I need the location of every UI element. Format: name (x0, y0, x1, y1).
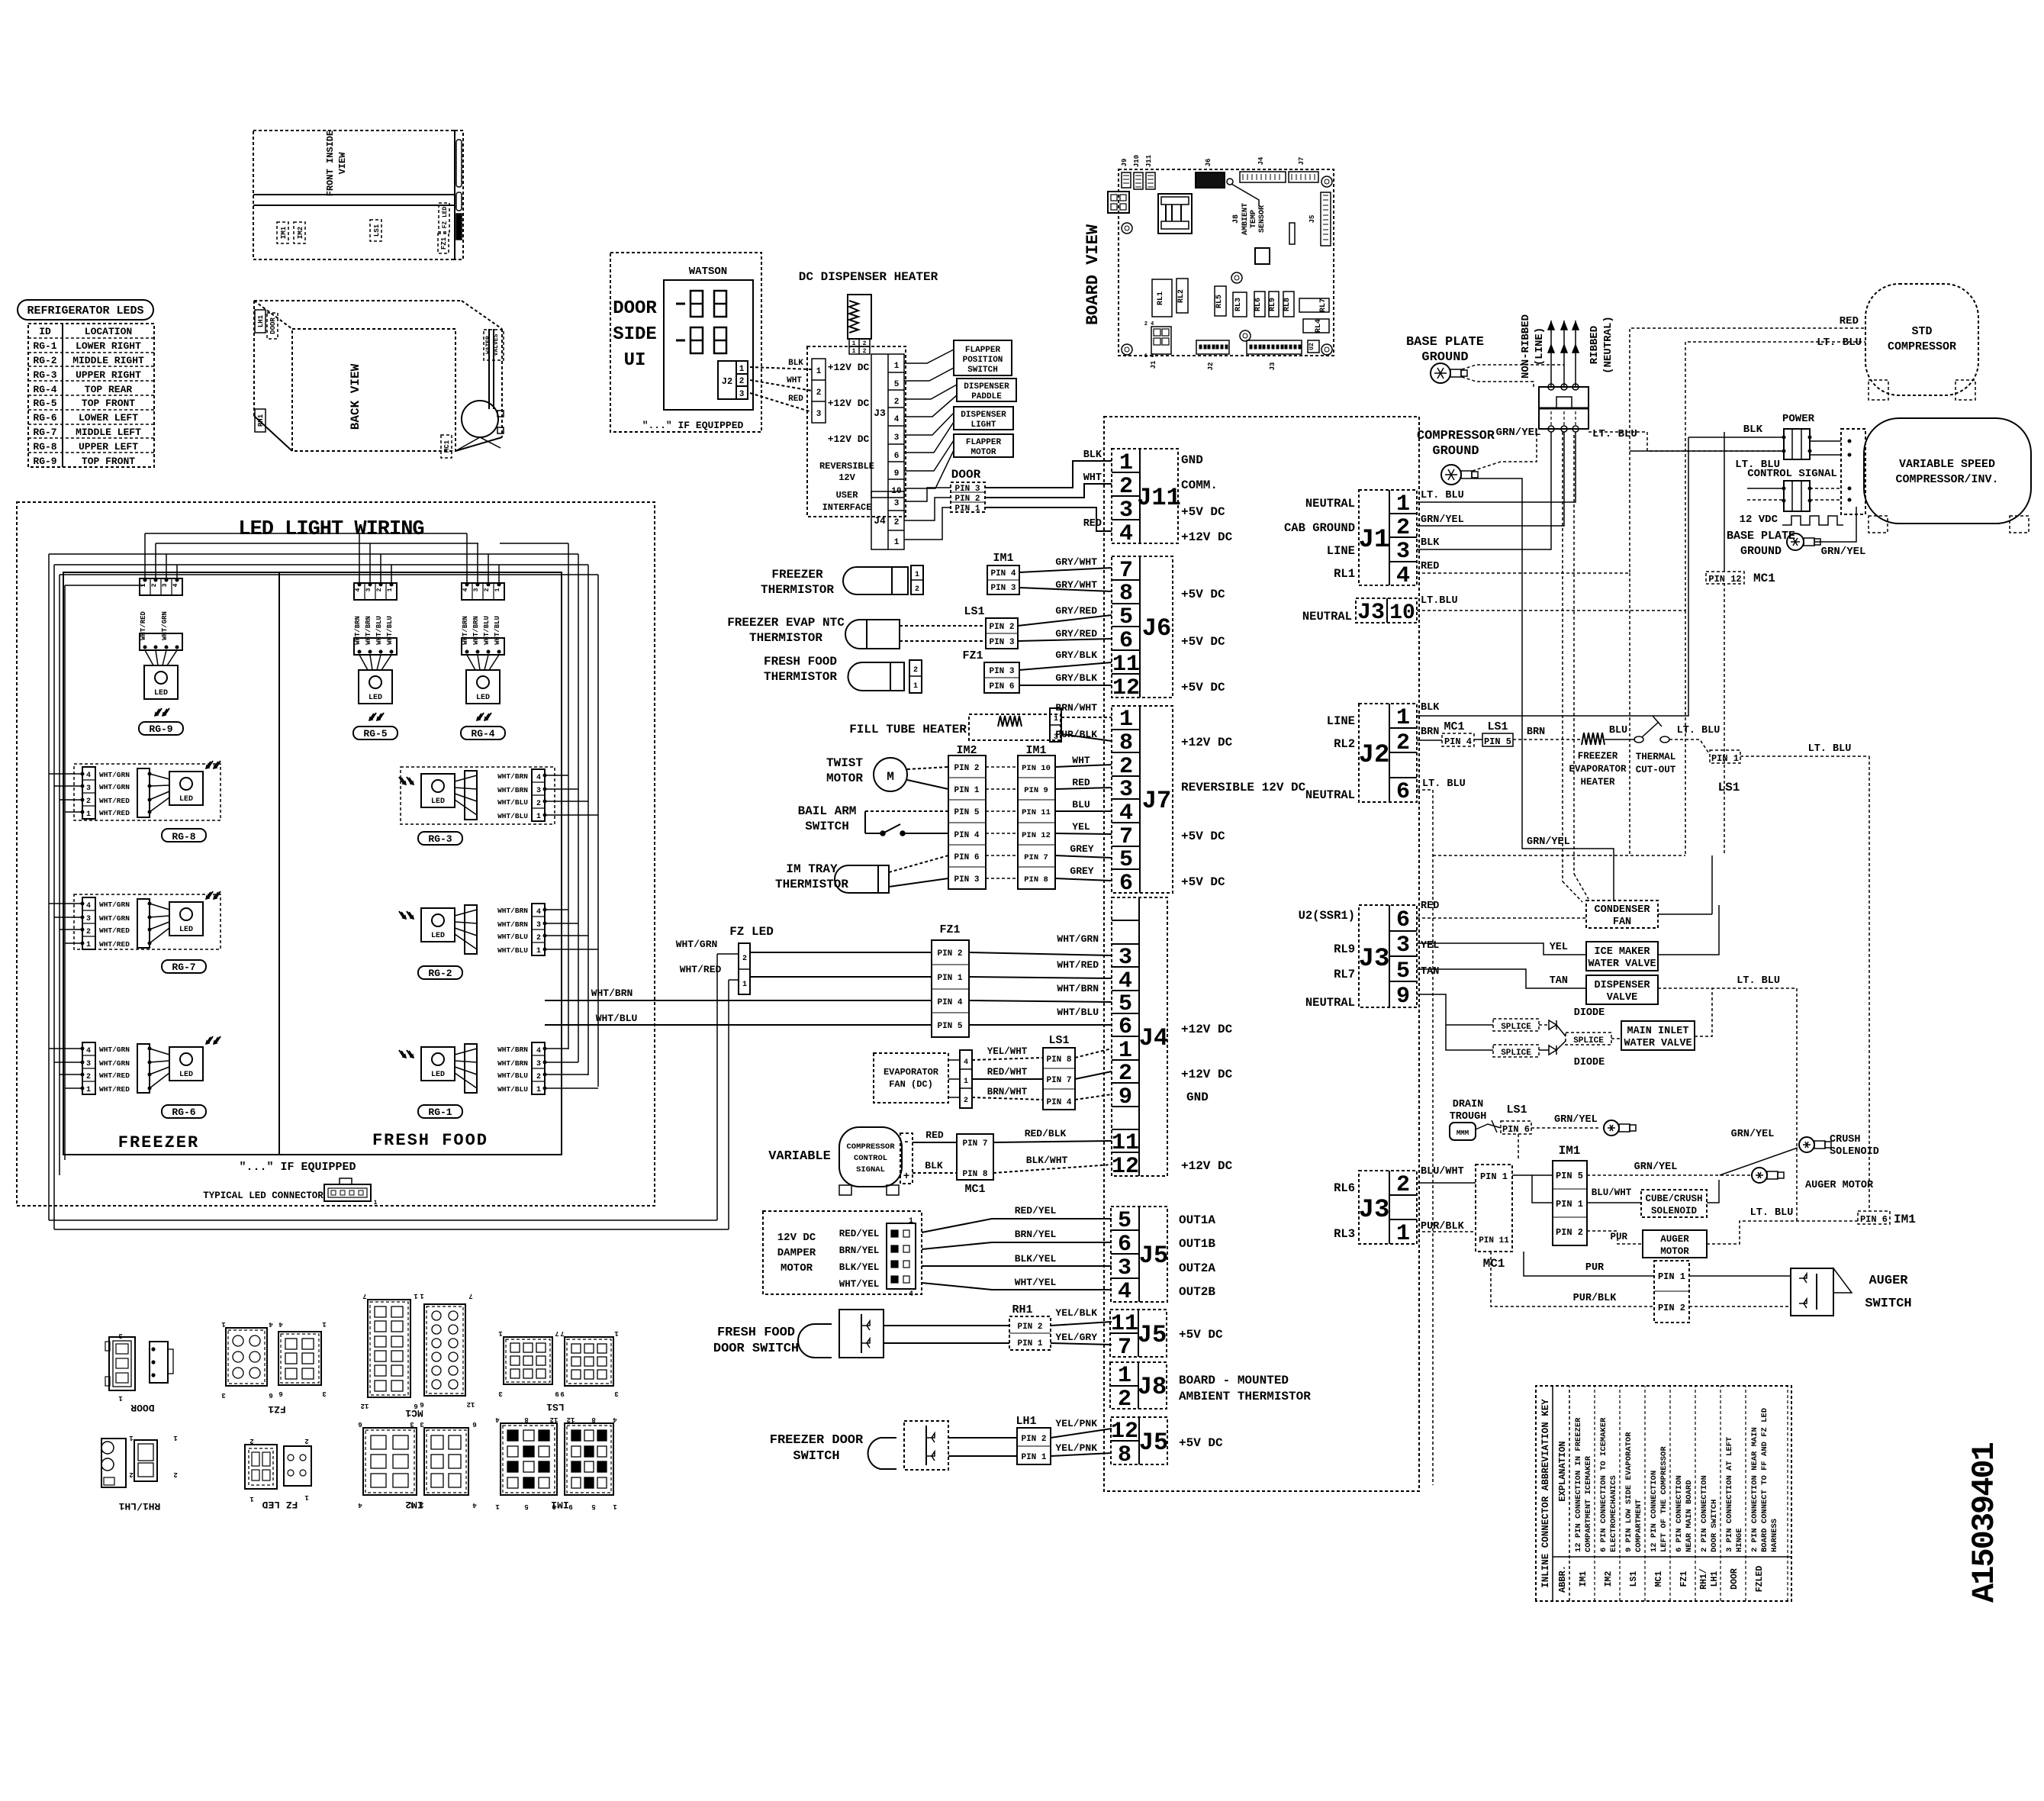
back view (refrigerator rear 3D drawing) (254, 300, 462, 301)
relay RL8 (1283, 292, 1294, 317)
svg-text:LT. BLU: LT. BLU (1737, 975, 1780, 987)
svg-text:LED: LED (431, 1071, 445, 1079)
svg-text:"..." IF EQUIPPED: "..." IF EQUIPPED (642, 420, 744, 431)
svg-text:NEUTRAL: NEUTRAL (1302, 610, 1352, 623)
relay RL3 (1233, 292, 1247, 317)
wire GREY to J7 pin5 (1055, 855, 1112, 858)
svg-text:1: 1 (742, 981, 747, 989)
fill tube heater connector 1-3 (1050, 708, 1061, 742)
svg-text:LINE: LINE (1327, 544, 1355, 558)
svg-text:RG-2: RG-2 (33, 355, 56, 366)
wire BLU/WHT IM1 pin1 to cube/crush solenoid (1587, 1202, 1641, 1203)
LED module RG-5 (354, 583, 397, 600)
svg-text:BLK: BLK (1421, 537, 1440, 549)
svg-text:GRY/WHT: GRY/WHT (1055, 579, 1097, 591)
stubs to RG-2 pins (545, 909, 568, 910)
svg-text:RED: RED (1072, 777, 1090, 788)
svg-text:WHT/BRN: WHT/BRN (497, 920, 528, 929)
svg-text:LED: LED (179, 1071, 193, 1079)
svg-text:BAIL ARM: BAIL ARM (798, 804, 857, 818)
svg-text:7: 7 (468, 1292, 472, 1300)
svg-text:FREEZER DOOR: FREEZER DOOR (770, 1433, 864, 1448)
std compressor (1865, 284, 1978, 395)
svg-text:CONDENSER: CONDENSER (1595, 904, 1651, 916)
svg-text:PIN 5: PIN 5 (954, 808, 979, 817)
svg-text:6: 6 (1119, 871, 1133, 897)
svg-text:DOOR SWITCH: DOOR SWITCH (1710, 1500, 1719, 1552)
svg-text:PIN 1: PIN 1 (1480, 1171, 1508, 1182)
svg-text:BLU: BLU (1609, 725, 1627, 736)
svg-text:IM2: IM2 (1604, 1571, 1614, 1587)
svg-text:2: 2 (739, 377, 745, 386)
svg-text:REVERSIBLE: REVERSIBLE (819, 461, 874, 472)
svg-text:PIN 9: PIN 9 (1024, 786, 1048, 795)
wire GRY/RED to J6 pin5 (1018, 615, 1112, 626)
connector J2 line out (1359, 704, 1417, 802)
evaporator fan DC (874, 1053, 948, 1103)
svg-text:3: 3 (86, 1060, 91, 1068)
svg-text:VALVES: VALVES (493, 333, 500, 356)
dispenser valve (1586, 975, 1658, 1004)
svg-text:J3: J3 (1359, 1196, 1390, 1225)
relay RL6 (1254, 292, 1265, 317)
svg-text:RG-4: RG-4 (471, 728, 494, 739)
svg-text:DOOR: DOOR (269, 317, 277, 334)
svg-text:HARNESS: HARNESS (1770, 1519, 1779, 1552)
svg-text:PIN 8: PIN 8 (1046, 1055, 1071, 1065)
relay RL9 (1269, 292, 1279, 317)
svg-text:RL7: RL7 (1319, 298, 1328, 312)
svg-text:LOWER RIGHT: LOWER RIGHT (76, 340, 141, 352)
svg-text:3: 3 (410, 1420, 414, 1428)
wire GRN/YEL vertical to condenser fan (1473, 478, 1614, 900)
svg-text:WHT/GRN: WHT/GRN (99, 783, 130, 791)
svg-text:9: 9 (1396, 984, 1410, 1010)
svg-text:RG-1: RG-1 (428, 1107, 452, 1118)
svg-text:2: 2 (1118, 1387, 1131, 1413)
svg-text:+5V DC: +5V DC (1181, 588, 1225, 601)
wires UI J4 to DOOR connector (904, 488, 951, 501)
svg-text:6: 6 (894, 452, 900, 461)
wire GRN/YEL IM1 pin5 to auger motor ground (1587, 1174, 1750, 1176)
7-segment display -88 lower (676, 340, 685, 342)
svg-text:COMPRESSOR: COMPRESSOR (1417, 429, 1495, 443)
svg-text:WHT/BRN: WHT/BRN (497, 772, 528, 781)
svg-text:9: 9 (555, 1390, 558, 1397)
svg-text:RIBBED: RIBBED (1589, 326, 1601, 364)
svg-text:WHT/BRN: WHT/BRN (354, 616, 362, 645)
svg-text:2: 2 (894, 398, 900, 407)
svg-text:BLK: BLK (1083, 449, 1102, 461)
wire BLK J2 pin1 to power (1417, 437, 1688, 716)
wire drops to RG-5 connector (359, 533, 360, 583)
svg-text:M: M (887, 770, 894, 784)
svg-text:1: 1 (495, 1503, 500, 1510)
svg-text:LS1: LS1 (1048, 1034, 1069, 1047)
wire BRN/WHT (972, 1097, 1043, 1100)
front inside view (refrigerator front drawing) (253, 130, 455, 259)
svg-text:COMPRESSOR/INV.: COMPRESSOR/INV. (1895, 473, 1998, 486)
svg-text:J4: J4 (1139, 1024, 1168, 1052)
wire PUR/BLK J3 RL3 to MC1 pin11 (1417, 1231, 1476, 1232)
svg-text:UPPER RIGHT: UPPER RIGHT (76, 369, 141, 381)
wire LS1 pin4 to J4 pin9 (1075, 1094, 1112, 1100)
relay RL7 (1299, 298, 1329, 312)
svg-text:1: 1 (964, 1078, 968, 1086)
wire RED to MC1 pin7 (913, 1142, 957, 1143)
connector drawing LS1 (504, 1337, 552, 1384)
svg-text:ELECTROMECHANICS: ELECTROMECHANICS (1609, 1475, 1618, 1552)
svg-text:PUR: PUR (1610, 1232, 1627, 1242)
svg-text:MC1: MC1 (1483, 1257, 1505, 1271)
UI input connector from J2 (812, 359, 826, 423)
svg-text:8: 8 (1118, 1442, 1131, 1468)
svg-text:J8: J8 (1138, 1373, 1167, 1401)
board IC (1255, 248, 1270, 264)
svg-text:LT. BLU: LT. BLU (1422, 778, 1466, 790)
svg-text:BLK: BLK (1421, 702, 1440, 714)
inline LS1 PIN 1 (1710, 750, 1740, 763)
svg-text:PIN 6: PIN 6 (1860, 1214, 1888, 1225)
svg-text:LEFT OF THE COMPRESSOR: LEFT OF THE COMPRESSOR (1659, 1446, 1669, 1552)
svg-text:WHT/RED: WHT/RED (1057, 959, 1099, 971)
svg-text:GRN/YEL: GRN/YEL (1421, 514, 1464, 526)
svg-text:DRAIN: DRAIN (1453, 1099, 1484, 1110)
LED wiring bus top (145, 533, 391, 534)
svg-text:WHT/BRN: WHT/BRN (497, 786, 528, 794)
svg-text:OUT2A: OUT2A (1179, 1261, 1215, 1275)
auger motor (1643, 1230, 1707, 1258)
svg-text:J4: J4 (874, 515, 886, 527)
stubs to RG-7 pins (49, 903, 82, 904)
svg-text:(LINE): (LINE) (1534, 327, 1546, 366)
refrigerator LEDs table title (18, 300, 153, 320)
svg-text:VARIABLE: VARIABLE (768, 1149, 831, 1164)
svg-text:1: 1 (498, 1329, 503, 1337)
svg-text:PIN 2: PIN 2 (1021, 1435, 1046, 1444)
svg-text:J5: J5 (1138, 1321, 1167, 1349)
svg-text:FREEZER: FREEZER (118, 1133, 199, 1152)
main board enclosure (1104, 417, 1419, 1491)
svg-text:WHT: WHT (1072, 755, 1090, 766)
connector MC1 pins 7-8 (957, 1134, 993, 1180)
board connector J6 (1196, 172, 1225, 188)
svg-text:LED: LED (369, 694, 382, 702)
svg-text:SIGNAL: SIGNAL (856, 1165, 885, 1174)
svg-text:LED: LED (179, 926, 193, 934)
wire WHT/BLU from LED box to FZ1 pin5 (545, 1024, 932, 1026)
water pipe in back view (488, 329, 490, 409)
wire BLK to power connector (1688, 437, 1784, 438)
svg-text:2: 2 (915, 585, 919, 594)
svg-text:9: 9 (560, 1390, 564, 1397)
label WATER VALVES back view (484, 330, 504, 360)
svg-text:RED: RED (1083, 518, 1102, 530)
svg-text:1: 1 (118, 1394, 123, 1402)
svg-text:PIN 1: PIN 1 (1711, 753, 1739, 764)
wire BRN/WHT to J7 pin1 (1061, 717, 1112, 718)
svg-text:4: 4 (86, 772, 91, 780)
wire BLU to J7 pin4 (1055, 810, 1112, 812)
svg-text:AUGER: AUGER (1660, 1234, 1689, 1245)
svg-text:3: 3 (221, 1391, 225, 1399)
connector J6 on main board (1112, 556, 1173, 698)
svg-text:RG-9: RG-9 (33, 456, 56, 467)
wire NEUTRAL J3 pin9 to splices (1417, 994, 1493, 1025)
svg-text:STD: STD (1911, 325, 1932, 338)
svg-text:8: 8 (591, 1416, 595, 1423)
wire BLK to MC1 pin8 (913, 1172, 957, 1174)
svg-text:GRN/YEL: GRN/YEL (1821, 546, 1866, 558)
wire LT.BLU dispenser valve down to auger (1658, 988, 1797, 1221)
svg-text:9 PIN LOW SIDE EVAPORATOR: 9 PIN LOW SIDE EVAPORATOR (1624, 1432, 1634, 1552)
svg-text:1: 1 (322, 1320, 327, 1328)
wire RED to J7 pin3 (1055, 788, 1112, 789)
label RG-9 (139, 722, 183, 735)
svg-text:WHT/BRN: WHT/BRN (1057, 983, 1099, 994)
wire RED J3 pin6 to condenser fan (1417, 917, 1586, 919)
svg-text:THERMISTOR: THERMISTOR (775, 878, 848, 891)
svg-text:RG-8: RG-8 (33, 441, 56, 453)
svg-text:2: 2 (894, 518, 900, 527)
svg-text:DOOR SWITCH: DOOR SWITCH (713, 1342, 799, 1356)
flapper position switch (954, 340, 1012, 375)
wire RED J1 pin4 to std compressor (1417, 328, 1865, 573)
svg-text:PIN 11: PIN 11 (1479, 1236, 1509, 1245)
wire GRY/WHT to J6 pin8 (1019, 588, 1112, 591)
splice 3 (1556, 1025, 1566, 1036)
svg-text:COMPARTMENT ICEMAKER: COMPARTMENT ICEMAKER (1584, 1455, 1593, 1552)
svg-text:6 PIN CONNECTION TO ICEMAKER: 6 PIN CONNECTION TO ICEMAKER (1599, 1417, 1608, 1552)
svg-text:PUR/BLK: PUR/BLK (1573, 1293, 1617, 1304)
svg-text:BASE PLATE: BASE PLATE (1406, 335, 1484, 350)
svg-text:WHT/BLU: WHT/BLU (386, 616, 394, 645)
svg-text:WHT/YEL: WHT/YEL (839, 1279, 880, 1290)
svg-text:7: 7 (1118, 1335, 1131, 1361)
svg-text:THERMAL: THERMAL (1636, 752, 1676, 762)
svg-text:6: 6 (1396, 779, 1410, 805)
svg-text:2: 2 (86, 928, 91, 936)
svg-text:AMBIENT: AMBIENT (1241, 203, 1250, 235)
svg-text:12 VDC: 12 VDC (1740, 514, 1778, 526)
connector drawing FZ LED (245, 1445, 277, 1489)
ice maker water valve (1586, 942, 1658, 971)
wire GRN/YEL drain to ground lug (1531, 1127, 1601, 1129)
connector J3 auger relays (1359, 1171, 1417, 1244)
svg-text:WHT/RED: WHT/RED (99, 940, 130, 949)
svg-text:J8: J8 (1232, 214, 1241, 224)
svg-text:1: 1 (173, 1434, 178, 1442)
svg-text:LED: LED (476, 694, 490, 702)
svg-text:MMM: MMM (1457, 1129, 1469, 1137)
svg-text:SWITCH: SWITCH (805, 820, 849, 833)
svg-text:1: 1 (249, 1495, 254, 1503)
wires J3 UI to flapper motor (904, 440, 954, 471)
svg-text:4: 4 (1118, 1279, 1131, 1305)
wire WHT to J7 pin2 (1055, 765, 1112, 767)
svg-text:1: 1 (304, 1493, 309, 1501)
svg-text:LT. BLU: LT. BLU (1808, 743, 1852, 755)
svg-text:2: 2 (536, 800, 541, 808)
svg-text:RED/YEL: RED/YEL (1015, 1205, 1057, 1216)
svg-text:2: 2 (536, 934, 541, 942)
connector J3 relays (1359, 905, 1417, 1007)
label DOOR back view (267, 313, 278, 339)
svg-text:6 PIN CONNECTION: 6 PIN CONNECTION (1675, 1475, 1684, 1552)
svg-text:BLU/WHT: BLU/WHT (1592, 1187, 1632, 1198)
svg-text:J2: J2 (1359, 741, 1390, 770)
svg-text:IM TRAY: IM TRAY (786, 862, 838, 876)
svg-text:PIN 3: PIN 3 (989, 667, 1014, 676)
svg-text:1: 1 (915, 571, 919, 579)
svg-text:PIN 6: PIN 6 (1502, 1124, 1530, 1135)
wire BLK J1 pin3 to mains (1417, 432, 1551, 549)
wire BLU to thermal cutout (1605, 739, 1635, 740)
connector drawing DOOR (109, 1337, 135, 1390)
svg-text:2: 2 (129, 1471, 133, 1478)
svg-text:1: 1 (420, 1292, 424, 1300)
svg-text:+5V DC: +5V DC (1179, 1436, 1223, 1450)
connector J7 on main board (1112, 706, 1173, 893)
svg-text:BLU/WHT: BLU/WHT (1421, 1166, 1464, 1178)
wire RED/YEL to J5 pin5 OUT1A (922, 1219, 1112, 1232)
right side LT.BLU bus (1869, 756, 1870, 1211)
12V DC damper motor (763, 1211, 922, 1294)
label LH1 back view (255, 310, 266, 333)
wire YEL/GRY to J5 pin7 (1051, 1343, 1112, 1345)
svg-text:NEUTRAL: NEUTRAL (1305, 497, 1355, 511)
svg-text:RG-5: RG-5 (33, 398, 56, 409)
svg-text:3: 3 (1118, 1255, 1131, 1281)
svg-text:BRN: BRN (1421, 727, 1439, 738)
svg-text:3: 3 (498, 1390, 502, 1397)
connector drawing MC1 (368, 1300, 410, 1397)
svg-text:J5: J5 (1139, 1242, 1168, 1270)
svg-text:4: 4 (269, 1320, 273, 1328)
svg-text:+5V DC: +5V DC (1181, 635, 1225, 649)
LED wiring bottom runs to FZ LED (49, 1219, 717, 1221)
label RG-5 (353, 727, 398, 739)
label RH1 back view (255, 409, 266, 432)
svg-text:RL7: RL7 (1334, 968, 1355, 981)
svg-text:+5V DC: +5V DC (1181, 681, 1225, 694)
svg-text:J5: J5 (1139, 1429, 1168, 1457)
svg-text:IM1: IM1 (1559, 1144, 1581, 1158)
svg-text:5: 5 (591, 1503, 595, 1510)
svg-text:GRY/WHT: GRY/WHT (1055, 556, 1097, 568)
svg-text:WHT/BLU: WHT/BLU (375, 616, 383, 645)
connector MC1 auger (1476, 1165, 1512, 1252)
board mounting holes (1122, 223, 1132, 234)
svg-text:GRY/RED: GRY/RED (1055, 605, 1097, 617)
label RG-2 (418, 966, 462, 979)
refrigerator LEDs table (28, 324, 154, 467)
svg-text:WHT/BRN: WHT/BRN (497, 1045, 528, 1054)
svg-text:LH1: LH1 (1710, 1571, 1720, 1587)
svg-text:WHT/BRN: WHT/BRN (365, 616, 372, 645)
svg-text:3: 3 (536, 787, 541, 795)
svg-text:WHT/RED: WHT/RED (99, 809, 130, 817)
LED wiring right verticals (568, 543, 569, 1049)
svg-text:4: 4 (613, 1416, 617, 1423)
svg-text:MC1: MC1 (1654, 1571, 1664, 1587)
wire WHT/RED FZ1 to J4 pin4 (969, 977, 1112, 978)
svg-text:WHT/GRN: WHT/GRN (99, 1059, 130, 1068)
svg-text:PIN 4: PIN 4 (1444, 736, 1472, 747)
svg-text:9: 9 (894, 469, 900, 478)
svg-text:WHT/GRN: WHT/GRN (99, 914, 130, 923)
svg-text:YEL/BLK: YEL/BLK (1055, 1307, 1097, 1319)
board connector J4 (1240, 172, 1286, 182)
variable speed compressor (1864, 418, 2031, 524)
svg-text:12 PIN CONNECTION: 12 PIN CONNECTION (1650, 1471, 1659, 1552)
svg-text:6: 6 (472, 1420, 476, 1428)
svg-text:RL9: RL9 (1269, 298, 1277, 311)
relay RL4 (1303, 319, 1329, 333)
svg-text:BOARD VIEW: BOARD VIEW (1083, 224, 1102, 325)
svg-text:WHT/GRN: WHT/GRN (99, 900, 130, 909)
svg-text:WHT/BLU: WHT/BLU (497, 798, 528, 807)
svg-text:UPPER LEFT: UPPER LEFT (79, 441, 138, 453)
svg-text:RG-3: RG-3 (428, 833, 452, 845)
svg-text:2 PIN CONNECTION: 2 PIN CONNECTION (1700, 1475, 1709, 1552)
svg-text:4: 4 (894, 415, 900, 424)
board connector J11 (1146, 172, 1155, 189)
svg-text:THERMISTOR: THERMISTOR (761, 583, 834, 597)
svg-text:4: 4 (355, 588, 362, 591)
svg-text:1 3: 1 3 (1144, 353, 1154, 359)
svg-text:RL3: RL3 (1234, 298, 1243, 311)
svg-text:12: 12 (550, 1416, 558, 1423)
svg-text:RG-6: RG-6 (33, 412, 56, 424)
svg-text:J1: J1 (1359, 526, 1390, 555)
svg-text:FREEZER: FREEZER (771, 568, 823, 582)
svg-text:PUR/BLK: PUR/BLK (1055, 729, 1097, 740)
svg-text:4: 4 (536, 908, 541, 917)
svg-text:PIN 12: PIN 12 (1022, 831, 1051, 840)
svg-text:YEL: YEL (1421, 940, 1439, 952)
svg-text:RL1: RL1 (1334, 567, 1355, 581)
wire GRN/YEL to crush solenoid ground (1720, 1148, 1798, 1175)
svg-text:RL3: RL3 (1334, 1227, 1355, 1241)
svg-text:GROUND: GROUND (1740, 545, 1782, 558)
svg-text:2: 2 (1396, 1172, 1410, 1198)
svg-text:FZ LED: FZ LED (442, 206, 449, 228)
svg-text:2 4: 2 4 (1144, 321, 1154, 327)
svg-text:PIN 4: PIN 4 (954, 831, 979, 840)
wire drops to RG-9 connector (144, 533, 146, 578)
svg-text:HEATER: HEATER (1580, 777, 1615, 788)
label RG-3 (418, 832, 462, 845)
svg-text:HINGE: HINGE (1735, 1528, 1744, 1552)
svg-text:6: 6 (358, 1420, 362, 1428)
svg-text:2: 2 (376, 588, 383, 591)
svg-text:COMPRESSOR: COMPRESSOR (1888, 340, 1956, 353)
svg-text:RG-4: RG-4 (33, 384, 56, 395)
svg-text:3: 3 (118, 1332, 122, 1339)
svg-text:8: 8 (1119, 581, 1133, 607)
svg-text:WHT/BRN: WHT/BRN (591, 987, 633, 999)
svg-text:J10: J10 (1133, 155, 1141, 167)
svg-text:MC1: MC1 (1753, 572, 1775, 585)
svg-text:PIN 12: PIN 12 (1708, 574, 1741, 585)
svg-text:LT. BLU: LT. BLU (1421, 490, 1464, 501)
svg-text:CONTROL: CONTROL (854, 1154, 887, 1163)
svg-text:PIN 1: PIN 1 (1017, 1339, 1042, 1348)
svg-text:MC1: MC1 (964, 1183, 985, 1196)
svg-text:GRY/BLK: GRY/BLK (1055, 672, 1097, 684)
svg-text:SPLICE: SPLICE (1501, 1023, 1531, 1032)
